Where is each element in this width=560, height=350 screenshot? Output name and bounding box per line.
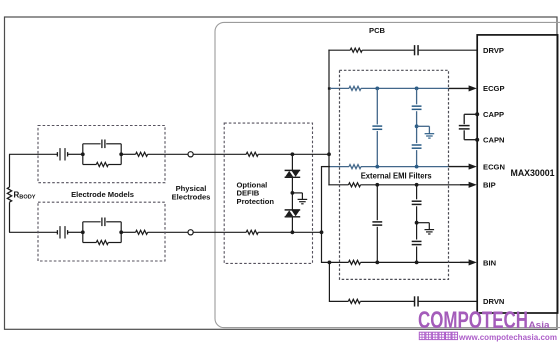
- resistor R-DRVN: [348, 299, 360, 303]
- wire to electrode terminal (top): [148, 153, 188, 155]
- node dot RC left (bottom): [81, 230, 85, 234]
- label Electrode Models: [71, 190, 134, 199]
- pin label CAPN: [483, 136, 505, 145]
- node dot defib bottom: [291, 230, 295, 234]
- battery V1 (half-cell potential, top electrode): [57, 148, 67, 160]
- pin label CAPP: [483, 110, 504, 119]
- pin label ECGN: [483, 162, 505, 171]
- wire DRVN left: [329, 300, 348, 302]
- node dot RC right (bottom): [119, 230, 123, 234]
- label Physical Electrodes: [172, 184, 211, 201]
- label MAX30001: [511, 168, 555, 178]
- wire ECGN corner: [322, 166, 331, 168]
- node dot bus P / electrode: [327, 152, 331, 156]
- capacitor C-EMI2 col2 lower: [412, 241, 422, 244]
- pin label DRVN: [483, 297, 504, 306]
- wire defib bottom to bus: [258, 231, 321, 233]
- node dot bus N / electrode: [320, 230, 324, 234]
- PCB boundary box: [215, 22, 560, 327]
- resistor R-series bottom: [136, 230, 148, 234]
- wire EMI col1 blue: [376, 88, 378, 166]
- svg-text:External EMI Filters: External EMI Filters: [361, 170, 432, 180]
- svg-text:MAX30001: MAX30001: [511, 168, 555, 178]
- electrode terminal circle (bottom): [188, 230, 193, 235]
- resistor R-defib top: [246, 152, 258, 156]
- wire ground branch: [292, 193, 302, 199]
- capacitor C-DRVN: [415, 296, 419, 306]
- svg-text:COMPOTECH: COMPOTECH: [418, 307, 528, 334]
- wire TVS column lower: [291, 217, 293, 233]
- node dot defib top: [291, 152, 295, 156]
- resistor R-BIP: [349, 183, 361, 187]
- wire EMI gnd branch blue: [417, 126, 430, 133]
- wire BIN right: [361, 261, 471, 263]
- capacitor C-EMI col2 lower: [412, 145, 422, 148]
- resistor R-defib bottom: [246, 230, 258, 234]
- ground symbol EMI blue: [425, 134, 435, 138]
- pin dot CAPP: [475, 112, 479, 116]
- node tick bus P ECGP: [328, 87, 331, 89]
- TVS diode D2 (bidirectional): [285, 210, 301, 217]
- node dot BIN col1: [375, 261, 379, 265]
- wire top branch left: [9, 153, 57, 155]
- node dot TVS middle: [291, 191, 295, 195]
- dashed box electrode model bottom: [38, 202, 165, 261]
- capacitor C-CAPP/CAPN: [459, 126, 470, 129]
- wire electrode to DEFIB (bottom): [193, 231, 246, 233]
- pin label ECGP: [483, 84, 505, 93]
- resistor R-DRVP: [350, 48, 362, 52]
- dashed box External EMI Filters: [340, 70, 449, 279]
- wire DRVP mid: [362, 49, 414, 51]
- TVS diode D1 (bidirectional): [285, 170, 301, 177]
- wire EMI2 gnd branch: [417, 223, 430, 230]
- node dot ECGP col2: [415, 87, 419, 91]
- wire electrode to DEFIB (top): [193, 153, 246, 155]
- svg-text:DRVN: DRVN: [483, 297, 504, 306]
- wire left rail bottom: [9, 202, 11, 232]
- pin label BIN: [483, 258, 496, 267]
- svg-text:Asia: Asia: [529, 320, 551, 331]
- svg-text:DRVP: DRVP: [483, 46, 504, 55]
- arrow into BIP pin: [460, 182, 477, 188]
- bus DRVN vertical: [328, 262, 330, 302]
- wire defib top to bus: [258, 153, 329, 155]
- node dot ECGN col1: [375, 165, 379, 169]
- wire left rail top: [9, 154, 11, 187]
- wire RC loop bottom branch: [83, 222, 121, 243]
- wire DRVN right: [418, 300, 478, 302]
- pin label DRVP: [483, 46, 504, 55]
- node dot RC left (top): [81, 152, 85, 156]
- resistor R-ECGN: [349, 165, 361, 169]
- wire ECGN blue left: [330, 166, 349, 168]
- wire BIP corner: [328, 184, 348, 186]
- wire EMI col2 blue: [416, 88, 418, 166]
- wire DRVP left: [328, 49, 350, 51]
- wire battery to RC node: [68, 153, 83, 155]
- node dot BIP col1: [375, 183, 379, 187]
- bus N vertical (bottom electrode net): [321, 166, 323, 263]
- wire BIN left: [322, 261, 349, 263]
- resistor R-electrode (bottom model): [96, 240, 108, 244]
- svg-text:www.compotechasia.com: www.compotechasia.com: [458, 332, 557, 342]
- wire RC loop top branch: [83, 144, 121, 165]
- label Optional DEFIB Protection: [237, 180, 275, 205]
- wire ECGP blue left: [330, 87, 349, 89]
- capacitor C-EMI2 col1: [372, 222, 382, 225]
- svg-text:Electrodes: Electrodes: [172, 193, 211, 202]
- resistor R-ECGP: [349, 86, 361, 90]
- label RBODY: [14, 190, 36, 200]
- wire to electrode terminal (bottom): [148, 231, 188, 233]
- watermark Asia: [529, 320, 551, 331]
- resistor R-BIN: [349, 260, 361, 264]
- wire DRVN mid: [360, 300, 414, 302]
- node dot ECGP col1: [375, 87, 379, 91]
- svg-text:ECGP: ECGP: [483, 84, 505, 93]
- wire EMI2 col2: [416, 185, 418, 263]
- pin label BIP: [483, 181, 496, 190]
- wire EMI2 col1: [376, 185, 378, 263]
- label External EMI Filters: [361, 170, 432, 180]
- bus P vertical (top electrode net): [328, 50, 330, 186]
- svg-text:BIP: BIP: [483, 181, 496, 190]
- wire RC to series resistor (bottom): [121, 231, 135, 233]
- node dot BIP col2: [415, 183, 419, 187]
- svg-text:Electrode Models: Electrode Models: [71, 190, 134, 199]
- svg-text:BIN: BIN: [483, 258, 496, 267]
- svg-text:Protection: Protection: [237, 197, 275, 206]
- label PCB: [369, 26, 386, 35]
- resistor RBODY: [7, 187, 11, 202]
- watermark chinese characters: [419, 332, 457, 339]
- arrow into ECGP pin: [449, 85, 477, 91]
- wire RC to series resistor (top): [121, 153, 135, 155]
- node dot RC right (top): [119, 152, 123, 156]
- capacitor C-EMI col2 upper: [412, 106, 422, 109]
- wire BIP right: [361, 184, 471, 186]
- node dot BIN col2: [415, 261, 419, 265]
- svg-text:CAPP: CAPP: [483, 110, 504, 119]
- node dot EMI col2 mid: [415, 124, 419, 128]
- capacitor C-electrode (bottom model): [102, 218, 105, 227]
- wire battery to RC node (bottom): [68, 231, 83, 233]
- watermark url: [458, 332, 557, 342]
- arrow into BIN pin: [460, 259, 477, 265]
- capacitor C-EMI col1: [372, 126, 382, 129]
- wire TVS column upper: [291, 154, 293, 170]
- svg-text:BODY: BODY: [19, 195, 35, 201]
- wire DRVP right: [418, 49, 478, 51]
- ground symbol EMI2: [425, 230, 435, 234]
- dashed box electrode model top: [38, 126, 165, 183]
- svg-text:PCB: PCB: [369, 26, 386, 35]
- capacitor C-electrode (top model): [102, 140, 105, 149]
- dashed box DEFIB protection: [224, 123, 312, 263]
- wire TVS middle: [291, 177, 293, 210]
- node dot ECGN col2: [415, 165, 419, 169]
- arrow into ECGN pin: [449, 164, 477, 170]
- capacitor C-EMI2 col2 upper: [412, 201, 422, 204]
- electrode terminal circle (top): [188, 152, 193, 157]
- wire bottom branch left: [9, 231, 57, 233]
- wire ECGN blue right: [361, 166, 449, 168]
- battery V2 (half-cell potential, bottom electrode): [57, 226, 67, 238]
- pin dot CAPN: [475, 138, 479, 142]
- wire CAPP-CAPN bracket: [464, 114, 477, 139]
- wire ECGP blue right: [361, 87, 449, 89]
- capacitor C-DRVP: [415, 45, 419, 55]
- resistor R-electrode (top model): [96, 162, 108, 166]
- node dot EMI2 col2 mid: [415, 221, 419, 225]
- node dot BIN/DRVN junction: [328, 261, 332, 265]
- IC MAX30001 box: [477, 35, 557, 313]
- svg-text:CAPN: CAPN: [483, 136, 505, 145]
- resistor R-series top: [136, 152, 148, 156]
- svg-text:ECGN: ECGN: [483, 162, 505, 171]
- watermark COMPOTECH: [418, 307, 528, 334]
- ground symbol DEFIB: [298, 199, 308, 203]
